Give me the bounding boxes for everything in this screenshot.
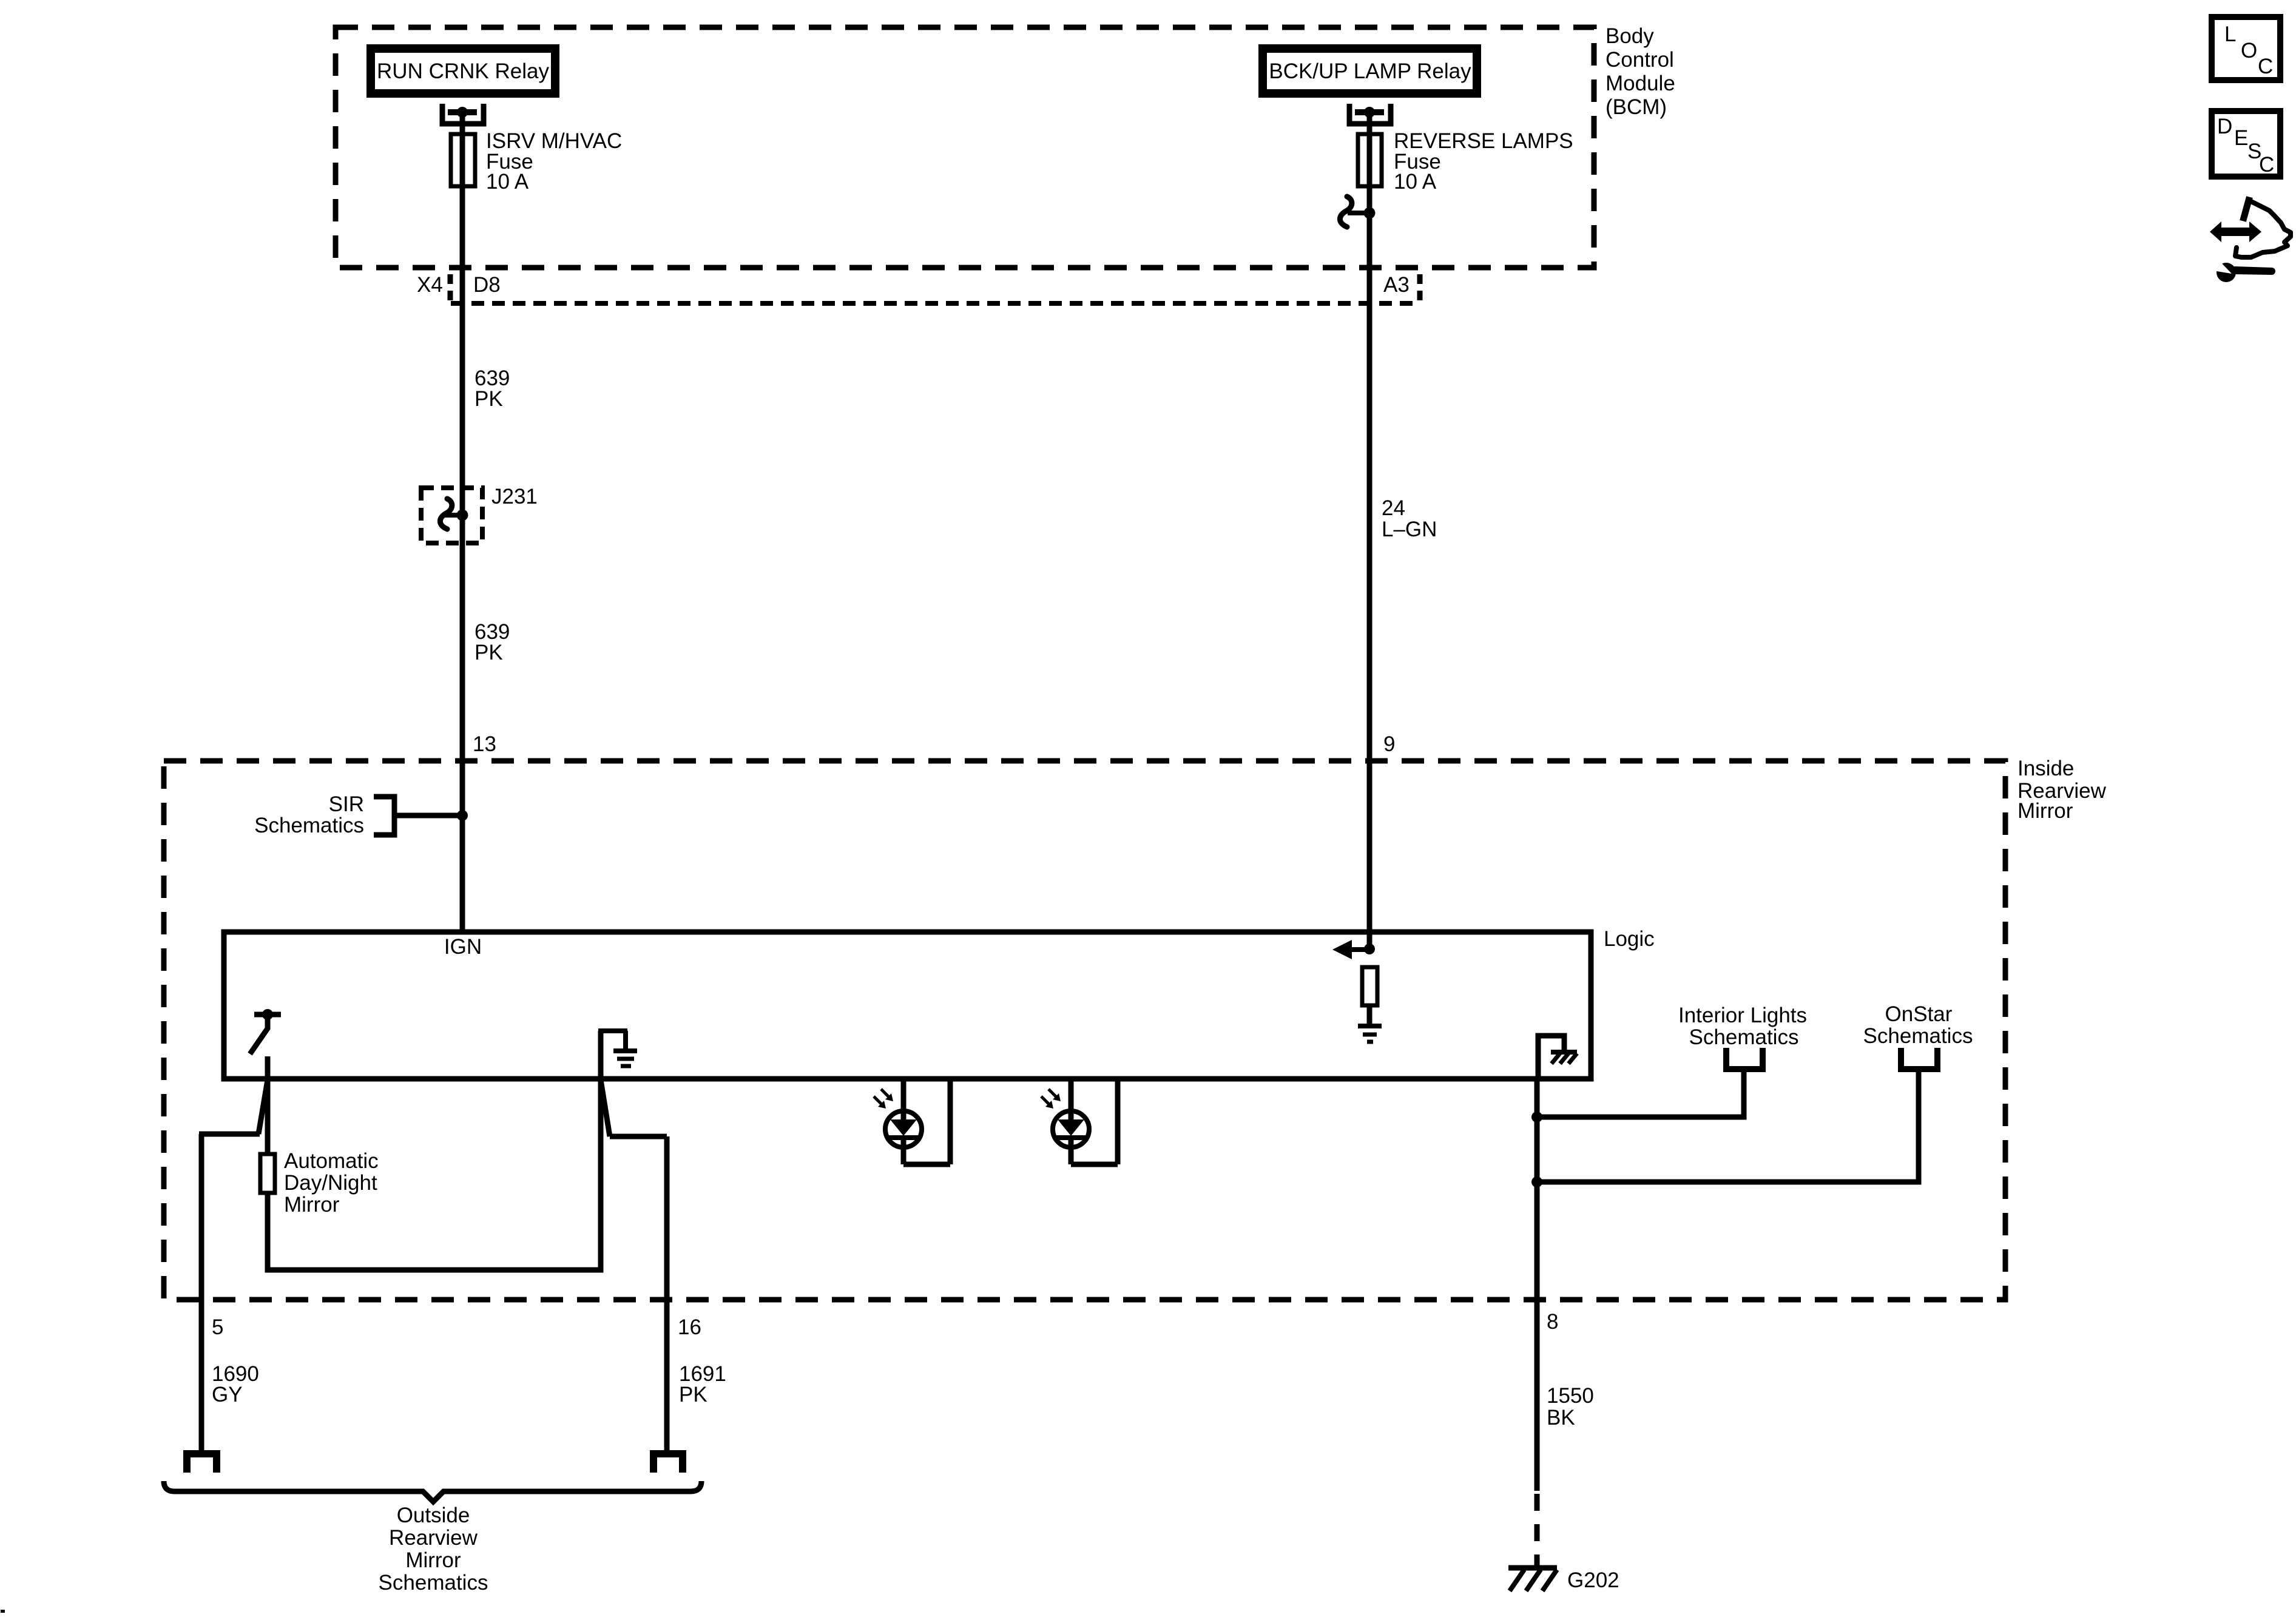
switch S1 inside logic box [250, 1009, 281, 1054]
relay K1 RUN CRNK Relay box [371, 49, 555, 93]
OnStar Schematics label [1863, 1002, 1973, 1048]
svg-text:24: 24 [1382, 496, 1405, 520]
connector terminal pin 16 [653, 1454, 683, 1473]
connector terminal pin 5 [187, 1454, 217, 1473]
svg-text:Schematics: Schematics [379, 1571, 488, 1595]
connector bracket under BCK/UP LAMP relay [1349, 104, 1391, 124]
svg-text:Module: Module [1606, 72, 1675, 95]
wire: right circuit from relay2 down into Logic box [1367, 112, 1373, 949]
connector bracket under RUN CRNK relay [442, 104, 484, 124]
wire label 639 PK (lower) [474, 620, 510, 664]
svg-text:BK: BK [1547, 1406, 1575, 1430]
svg-text:Inside: Inside [2017, 757, 2074, 780]
svg-text:Schematics: Schematics [254, 814, 364, 837]
photodiode D1 [885, 1079, 950, 1164]
svg-text:OnStar: OnStar [1885, 1002, 1953, 1026]
light arrows into D2 [1041, 1089, 1061, 1109]
svg-text:Day/Night: Day/Night [284, 1171, 377, 1195]
svg-text:16: 16 [678, 1315, 701, 1339]
Outside Rearview Mirror Schematics label [379, 1504, 488, 1595]
splice J231 dashed box [421, 488, 482, 543]
fuse F1 ISRV M/HVAC 10A body [451, 134, 475, 186]
svg-text:E: E [2234, 126, 2248, 150]
svg-text:Automatic: Automatic [284, 1149, 379, 1173]
ground symbol under resistor R1 [1358, 1026, 1382, 1042]
svg-text:Mirror: Mirror [284, 1193, 340, 1217]
svg-text:L–GN: L–GN [1382, 518, 1437, 541]
svg-text:9: 9 [1383, 732, 1395, 756]
splice J231 symbol [440, 499, 468, 529]
wire: switch lower terminal down to day/night mirror resistor [265, 1056, 271, 1154]
wire label 24 L-GN [1382, 496, 1437, 541]
SIR Schematics label [254, 792, 364, 837]
fuse F1 label [486, 129, 622, 194]
Automatic Day/Night Mirror label [284, 1149, 379, 1217]
photodiode D2 [1053, 1079, 1118, 1164]
tool icon: double arrow [2210, 221, 2261, 242]
connector bracket Interior Lights [1726, 1048, 1763, 1069]
arrow pointing left from junction [1332, 940, 1369, 959]
resistor: Automatic Day/Night Mirror element [260, 1154, 275, 1193]
light arrows into D1 [874, 1089, 893, 1109]
relay K2 BCK/UP LAMP Relay box [1263, 49, 1477, 93]
svg-text:Schematics: Schematics [1689, 1025, 1799, 1049]
svg-text:Interior Lights: Interior Lights [1678, 1004, 1807, 1027]
svg-text:(BCM): (BCM) [1606, 95, 1667, 119]
svg-text:C: C [2259, 153, 2274, 177]
svg-text:D: D [2217, 115, 2232, 138]
wire resistor to ground [1367, 1005, 1373, 1024]
junction dot relay1 output [457, 107, 468, 118]
svg-text:13: 13 [473, 732, 496, 756]
fuse F2 REVERSE LAMPS 10A body [1358, 134, 1382, 186]
svg-text:PK: PK [474, 641, 503, 664]
tool icon: hand outline [2235, 200, 2291, 257]
svg-text:D8: D8 [473, 273, 501, 297]
wire: left circuit 639 PK from relay1 down to Logic box [460, 112, 465, 932]
svg-text:Control: Control [1606, 48, 1674, 72]
svg-text:1550: 1550 [1547, 1384, 1594, 1408]
svg-text:BCK/UP LAMP Relay: BCK/UP LAMP Relay [1269, 59, 1471, 83]
svg-text:5: 5 [212, 1315, 223, 1339]
svg-text:Outside: Outside [397, 1504, 470, 1527]
connector bracket OnStar [1901, 1048, 1937, 1069]
tool icon: wrench [2213, 260, 2275, 282]
wire: resistor bottom loop [268, 1079, 601, 1270]
wire: pin 16 vertical drop [664, 1136, 670, 1451]
junction dot onstar tap [1531, 1176, 1542, 1187]
junction dot interior lights tap [1531, 1112, 1542, 1122]
svg-text:Body: Body [1606, 24, 1654, 48]
stray mark bottom left [1, 1610, 5, 1613]
fuse F2 label [1394, 129, 1573, 194]
svg-text:Schematics: Schematics [1863, 1024, 1973, 1048]
svg-text:O: O [2241, 39, 2257, 62]
wire: horizontal to pin 5 drop [199, 1132, 260, 1137]
wire: pin 5 vertical drop [199, 1134, 204, 1451]
wire label 1550 BK [1547, 1384, 1594, 1430]
wire label 1690 GY [212, 1362, 259, 1406]
brace Outside Rearview Mirror [164, 1481, 701, 1502]
svg-text:L: L [2224, 22, 2236, 46]
junction dot right wire inside logic box [1364, 944, 1375, 954]
svg-text:GY: GY [212, 1383, 243, 1406]
SIR Schematics off-page bracket [374, 797, 394, 835]
connector separator right [1417, 274, 1423, 302]
wire: slant from ground leg to pin 16 branch [601, 1080, 610, 1136]
wire: slant from switch to pin 5 branch [258, 1080, 268, 1134]
BCM label text [1606, 24, 1675, 119]
connector separator left [448, 274, 453, 302]
svg-text:IGN: IGN [444, 935, 482, 959]
wire: horizontal to pin 16 drop [610, 1134, 667, 1139]
svg-text:X4: X4 [417, 273, 443, 297]
svg-text:8: 8 [1547, 1310, 1558, 1334]
svg-text:SIR: SIR [329, 792, 364, 816]
resistor R1 inside logic box [1362, 967, 1377, 1005]
svg-text:10 A: 10 A [486, 170, 529, 194]
Logic box of mirror [224, 932, 1591, 1079]
ground G202 symbol [1508, 1568, 1557, 1591]
wire: main ground wire from logic box bottom [1535, 1079, 1540, 1491]
wire label 639 PK (upper) [474, 366, 510, 411]
Inside Rearview Mirror label [2017, 757, 2107, 823]
svg-text:J231: J231 [491, 485, 538, 508]
BCM dashed box (Body Control Module) [336, 27, 1594, 268]
svg-text:PK: PK [679, 1383, 707, 1406]
chassis ground symbol small [1551, 1052, 1577, 1064]
svg-text:Rearview: Rearview [389, 1526, 478, 1550]
connector X4 dashed pass-through line [451, 301, 1417, 306]
chassis ground hook inside logic box (right) [1538, 1036, 1564, 1079]
svg-text:Mirror: Mirror [405, 1548, 461, 1572]
wire to Interior Lights Schematics [1537, 1069, 1744, 1117]
ground symbol inside logic box (left) [598, 1031, 637, 1079]
LOC button box [2212, 17, 2280, 80]
relay contact symbol on right wire [1340, 197, 1375, 227]
Interior Lights Schematics label [1678, 1004, 1807, 1049]
svg-text:A3: A3 [1383, 273, 1410, 297]
svg-text:C: C [2258, 55, 2273, 78]
svg-text:Logic: Logic [1604, 927, 1655, 951]
Inside Rearview Mirror dashed box [164, 761, 2005, 1300]
DESC button box [2212, 111, 2280, 177]
wire label 1691 PK [679, 1362, 726, 1406]
wire to OnStar Schematics [1537, 1069, 1919, 1182]
svg-text:RUN CRNK Relay: RUN CRNK Relay [377, 59, 549, 83]
junction dot relay2 output [1364, 107, 1375, 118]
wire: dashed segment to G202 [1535, 1494, 1540, 1567]
svg-text:10 A: 10 A [1394, 170, 1437, 194]
svg-text:PK: PK [474, 387, 503, 411]
wire from SIR bracket to node [394, 813, 462, 819]
junction dot SIR tap [457, 810, 468, 821]
svg-text:G202: G202 [1567, 1568, 1619, 1592]
svg-text:Mirror: Mirror [2017, 799, 2073, 823]
